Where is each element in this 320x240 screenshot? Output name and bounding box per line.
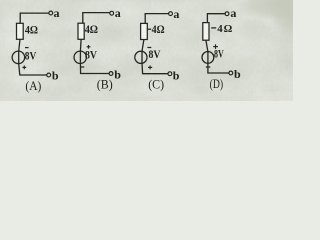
- paper background: [0, 0, 293, 101]
- voltage source circle (B): [74, 51, 86, 63]
- faint top edge marks: [78, 0, 238, 2]
- voltage source circle (D): [202, 52, 214, 64]
- wire: resistor to bottom through source D: [206, 40, 229, 73]
- svg-text:a: a: [230, 6, 236, 20]
- svg-text:b: b: [114, 68, 121, 82]
- scan smudge left edge: [0, 12, 3, 26]
- svg-text:(C): (C): [148, 77, 164, 91]
- resistor 4ohm (D): [203, 23, 209, 41]
- terminal b (D): [229, 71, 233, 75]
- svg-text:8V: 8V: [149, 49, 162, 61]
- svg-text:(A): (A): [25, 79, 41, 93]
- wire: top horizontal B: [83, 13, 110, 24]
- scan smudge top-right: [234, 0, 318, 20]
- resistor 4ohm (C): [141, 23, 148, 39]
- wire: resistor to bottom through source A: [19, 39, 47, 75]
- svg-text:4Ω: 4Ω: [25, 22, 38, 36]
- bleed-through marks bottom-right: [248, 88, 278, 96]
- svg-text:b: b: [52, 69, 59, 83]
- svg-text:a: a: [173, 7, 179, 21]
- svg-text:b: b: [234, 67, 241, 81]
- svg-text:8V: 8V: [214, 49, 224, 61]
- polarity minus (B bottom): [80, 66, 84, 68]
- svg-text:(D): (D): [210, 77, 224, 91]
- label minus4ohm (C): [147, 28, 151, 30]
- terminal b (C): [168, 72, 172, 76]
- wire: top horizontal D: [207, 14, 225, 23]
- wire: top horizontal C: [145, 14, 168, 24]
- svg-text:(B): (B): [97, 77, 113, 91]
- terminal b (B): [109, 72, 113, 76]
- svg-text:Ω: Ω: [224, 23, 233, 35]
- polarity plus (C bottom): [148, 66, 152, 70]
- wire: top horizontal A: [20, 13, 49, 23]
- polarity minus (D bottom): [206, 66, 211, 68]
- polarity minus (C top): [147, 47, 151, 49]
- svg-text:4: 4: [217, 23, 223, 35]
- terminal a (A): [49, 11, 53, 15]
- svg-text:8V: 8V: [25, 50, 37, 62]
- darker bottom edge band: [0, 96, 293, 101]
- wire: resistor to bottom through source B: [80, 39, 109, 73]
- label minus4ohm (D): [211, 27, 216, 29]
- wire: resistor to bottom through source C: [142, 40, 168, 74]
- svg-text:4Ω: 4Ω: [152, 22, 165, 36]
- svg-text:8V: 8V: [85, 50, 98, 62]
- polarity plus (D top): [213, 44, 218, 49]
- voltage source circle (A): [12, 51, 25, 64]
- terminal a (D): [225, 12, 229, 16]
- svg-text:4Ω: 4Ω: [85, 22, 99, 36]
- terminal a (C): [169, 12, 173, 16]
- terminal a (B): [110, 11, 114, 15]
- svg-text:a: a: [115, 6, 121, 20]
- polarity minus (A top): [25, 47, 29, 49]
- svg-text:b: b: [173, 68, 180, 82]
- resistor 4ohm (A): [17, 23, 24, 39]
- voltage source circle (C): [135, 51, 147, 63]
- polarity plus (B top): [87, 45, 91, 49]
- resistor 4ohm (B): [78, 23, 84, 39]
- terminal b (A): [47, 73, 51, 77]
- polarity plus (A bottom): [22, 66, 26, 70]
- svg-text:a: a: [54, 6, 60, 20]
